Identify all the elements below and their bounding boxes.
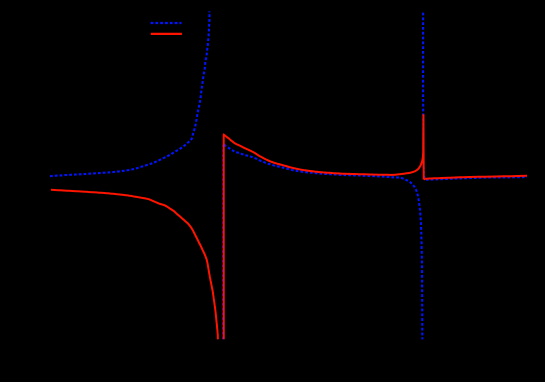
blue dotted curve: middle branch (vertical from bottom at x=223.3, decay, dive at x=422) [223,144,422,340]
blue dotted curve: right branch (vertical from top at x=423.2, level tail) [423,13,527,180]
red solid curve: left branch descending to bottom clip [51,190,218,339]
blue dotted curve: left branch rising to top clip [50,11,210,176]
red solid curve: right branch tail [424,176,527,180]
legend sample line: blue dotted [151,22,182,24]
legend sample line: red solid [151,33,182,35]
red solid curve: middle branch (vertical notch edge at x=223.55, decay, spike at x=423.45) [224,114,424,339]
